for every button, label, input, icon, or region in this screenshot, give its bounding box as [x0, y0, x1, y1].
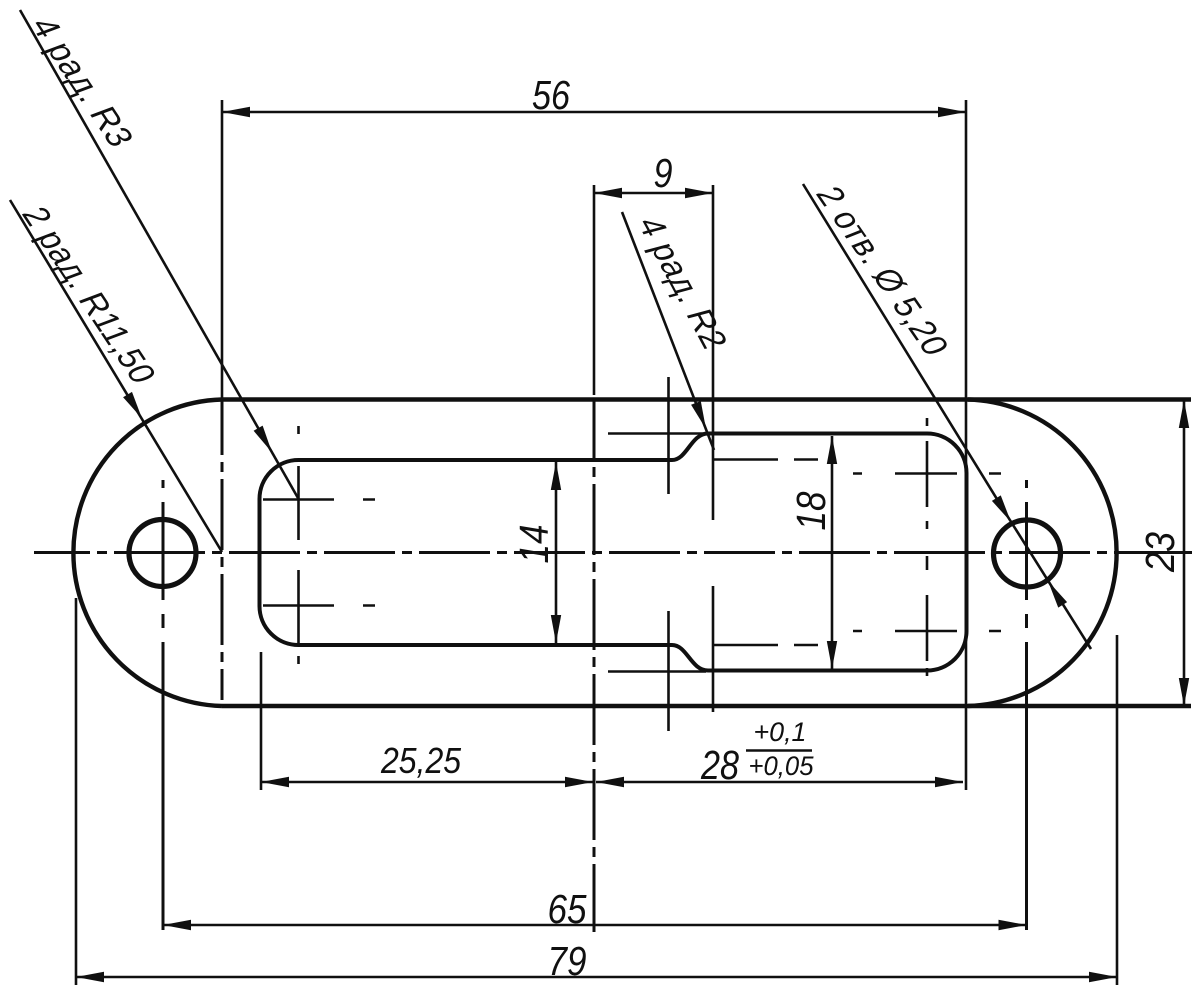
R11,50 leader arrow	[123, 392, 146, 421]
hole right d5.20	[994, 520, 1061, 587]
dim 9 line	[594, 185, 713, 395]
9 arrows	[594, 188, 622, 198]
inner slot outline: 14-wide left section, 18-wide right section, R3 corners, R2 steps	[260, 434, 967, 671]
svg-text:+0,1: +0,1	[754, 717, 807, 747]
svg-text:79: 79	[548, 938, 587, 984]
leader R3	[20, 10, 298, 498]
leader R11,50	[10, 200, 222, 552]
left cap centerline x=222	[221, 400, 224, 700]
dim 56 line	[222, 100, 966, 790]
dim 14 line	[555, 462, 558, 643]
svg-text:14: 14	[511, 525, 557, 564]
dim 65 line	[163, 924, 1027, 927]
leader R2	[622, 212, 714, 450]
dim 18 line	[831, 436, 834, 669]
R3 left corner center crosses	[263, 426, 375, 664]
dim 25,25 / 28 lines	[261, 652, 963, 790]
outer plate outline (stadium 79x23, R11.50 caps)	[73, 400, 1191, 707]
R3 leader arrow	[254, 426, 277, 455]
28 arrows	[596, 777, 624, 787]
svg-text:65: 65	[548, 886, 587, 932]
5,20 leader arrows	[992, 495, 1016, 524]
65 arrows	[163, 920, 191, 930]
svg-text:+0,05: +0,05	[749, 751, 815, 781]
svg-text:23: 23	[1137, 532, 1183, 573]
14 arrows	[551, 462, 561, 490]
R2 leader arrow	[691, 401, 711, 431]
hole left vertical centerline + 65 extension	[162, 480, 165, 930]
dim 23 line	[1183, 400, 1186, 706]
svg-text:25,25: 25,25	[380, 740, 462, 781]
svg-text:18: 18	[788, 491, 834, 530]
svg-text:9: 9	[654, 150, 673, 196]
79 arrows	[76, 972, 104, 982]
hole right vertical centerline + 65 extension	[1025, 480, 1028, 930]
leader otv 5,20	[803, 184, 1091, 649]
vertical main centerline	[593, 399, 596, 932]
dim 79 line	[76, 598, 1117, 985]
25,25 arrows	[261, 777, 289, 787]
18 arrows	[827, 436, 837, 464]
56 arrows	[222, 107, 250, 117]
R2 step center lines	[608, 185, 818, 731]
horizontal main centerline	[34, 551, 1192, 554]
23 arrows	[1179, 400, 1189, 428]
R3 right corner center crosses	[853, 418, 1001, 676]
svg-text:56: 56	[532, 72, 570, 118]
hole left d5.20	[129, 520, 196, 587]
svg-text:28: 28	[700, 742, 739, 788]
